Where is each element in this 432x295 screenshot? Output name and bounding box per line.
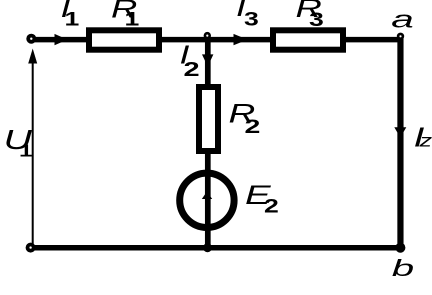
svg-text:1: 1 bbox=[65, 8, 80, 29]
svg-text:1: 1 bbox=[19, 141, 33, 161]
svg-text:a: a bbox=[391, 6, 413, 33]
svg-text:2: 2 bbox=[264, 195, 279, 216]
svg-text:3: 3 bbox=[244, 8, 259, 29]
svg-text:2: 2 bbox=[245, 117, 261, 138]
svg-text:z: z bbox=[418, 130, 432, 151]
svg-text:b: b bbox=[392, 255, 414, 281]
svg-text:2: 2 bbox=[184, 58, 200, 80]
svg-text:1: 1 bbox=[125, 8, 140, 29]
svg-text:3: 3 bbox=[309, 9, 324, 30]
